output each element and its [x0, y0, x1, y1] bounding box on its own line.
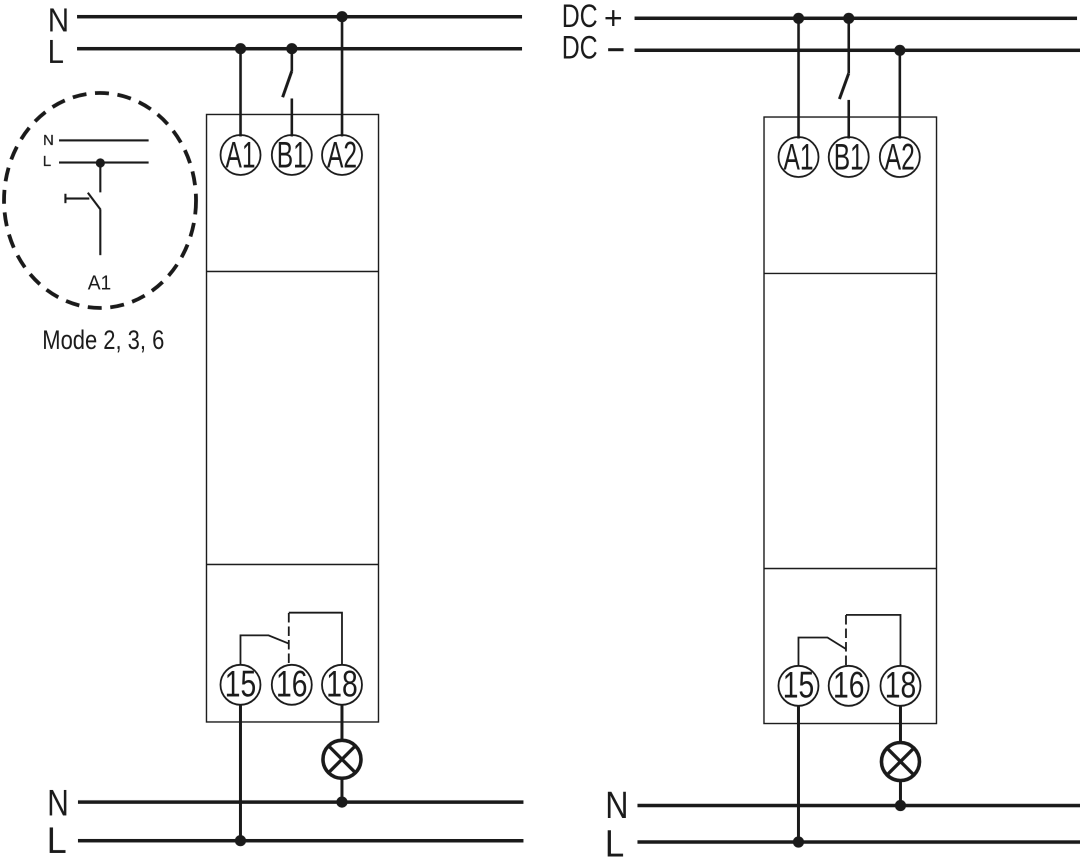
device divider lower (left) [206, 563, 378, 565]
svg-text:15: 15 [225, 664, 257, 705]
inset wire from L [99, 163, 101, 192]
device divider upper (left) [207, 270, 379, 272]
terminal B1 (left) [272, 134, 312, 175]
svg-text:+: + [604, 0, 623, 36]
wire A2 to DC- rail (right) [899, 50, 902, 138]
wire 18 to lamp (left) [340, 704, 343, 740]
svg-text:16: 16 [833, 665, 865, 706]
svg-text:A1: A1 [784, 136, 814, 177]
svg-text:N: N [605, 785, 628, 827]
wire L rail top left [77, 47, 522, 51]
svg-text:B1: B1 [277, 134, 307, 175]
terminal 18 (right) [880, 665, 920, 706]
junction dot DC+/A1 (right) [793, 13, 804, 24]
svg-text:N: N [43, 132, 54, 149]
terminal 15 (right) [778, 665, 818, 706]
wire 18 to lamp (right) [899, 706, 902, 743]
mode inset dashed ellipse [4, 93, 196, 308]
wire N rail bottom left [78, 800, 524, 804]
inset pushbutton blade [88, 193, 101, 210]
wire N rail bottom right [637, 804, 1080, 808]
wire A1 to L rail (left) [239, 49, 242, 137]
pushbutton B1 upper lead (left) [291, 49, 294, 71]
pushbutton B1 upper lead (right) [847, 18, 850, 73]
svg-text:15: 15 [783, 665, 815, 706]
wire L rail bottom left [78, 839, 524, 843]
lamp (left) [323, 740, 361, 778]
terminal 16 (left) [272, 664, 312, 705]
pushbutton B1 blade (right) [839, 73, 848, 99]
wire 15 to L rail (left) [239, 704, 242, 840]
relay contact lead to 18 (right) [846, 615, 901, 666]
pushbutton B1 blade (left) [283, 71, 292, 97]
device box (right) [764, 117, 937, 724]
inset N line [59, 139, 149, 141]
terminal A2 (left) [322, 134, 362, 175]
inset L line [59, 161, 149, 163]
svg-text:A2: A2 [327, 134, 357, 175]
device box (left) [206, 114, 378, 722]
junction dot L/B1 (left) [286, 43, 297, 54]
svg-text:B1: B1 [834, 136, 864, 177]
junction dot DC-/A2 (right) [894, 45, 905, 56]
relay contact dashed link to 16 (right) [845, 615, 847, 666]
svg-text:L: L [43, 153, 51, 170]
terminal 18 (left) [322, 664, 362, 705]
junction dot 15/L (left) [235, 835, 246, 846]
terminal B1 (right) [829, 136, 869, 177]
svg-text:18: 18 [885, 665, 917, 706]
inset pushbutton actuator bar [64, 194, 66, 203]
wire lamp to N rail (left) [340, 779, 343, 802]
junction dot N/A2 (left) [336, 11, 347, 22]
junction dot lamp/N (left) [336, 796, 347, 807]
terminal A1 (left) [221, 134, 261, 175]
relay contact common lead 15 (left) [240, 635, 289, 665]
wire lamp to N rail (right) [899, 781, 902, 806]
svg-text:A1: A1 [88, 271, 112, 294]
pushbutton B1 lower lead (left) [291, 98, 294, 136]
device divider upper (right) [764, 272, 937, 274]
terminal A2 (right) [880, 136, 920, 177]
lamp (right) [881, 743, 919, 781]
terminal 15 (left) [220, 664, 260, 705]
svg-text:L: L [48, 34, 64, 71]
wire DC- rail top right [635, 49, 1080, 53]
svg-text:16: 16 [276, 664, 308, 705]
svg-text:L: L [47, 820, 67, 861]
device divider lower (right) [764, 568, 937, 570]
terminal 16 (right) [829, 665, 869, 706]
svg-text:L: L [605, 824, 624, 865]
wire DC+ rail top right [635, 17, 1077, 21]
wire A2 to N rail (left) [341, 17, 344, 137]
inset junction dot [96, 158, 105, 167]
junction dot 15/L (right) [793, 836, 804, 847]
wire N rail top left [77, 15, 522, 19]
svg-text:18: 18 [326, 664, 358, 705]
wire A1 to DC+ rail (right) [797, 18, 800, 138]
junction dot DC+/B1 (right) [843, 13, 854, 24]
pushbutton B1 lower lead (right) [847, 100, 850, 139]
terminal A1 (right) [779, 136, 819, 177]
svg-text:A2: A2 [885, 136, 915, 177]
inset lower wire [99, 210, 101, 255]
svg-text:DC: DC [562, 30, 598, 66]
svg-text:Mode 2, 3, 6: Mode 2, 3, 6 [42, 325, 164, 355]
svg-text:N: N [47, 782, 69, 823]
relay contact lead to 18 (left) [289, 613, 342, 666]
wire 15 to L rail (right) [797, 706, 800, 843]
relay contact dashed link to 16 (left) [288, 613, 290, 665]
junction dot lamp/N (right) [895, 800, 906, 811]
junction dot L/A1 (left) [235, 43, 246, 54]
wire L rail bottom right [637, 840, 1080, 844]
relay contact common lead 15 (right) [798, 638, 846, 667]
svg-text:A1: A1 [226, 134, 256, 175]
